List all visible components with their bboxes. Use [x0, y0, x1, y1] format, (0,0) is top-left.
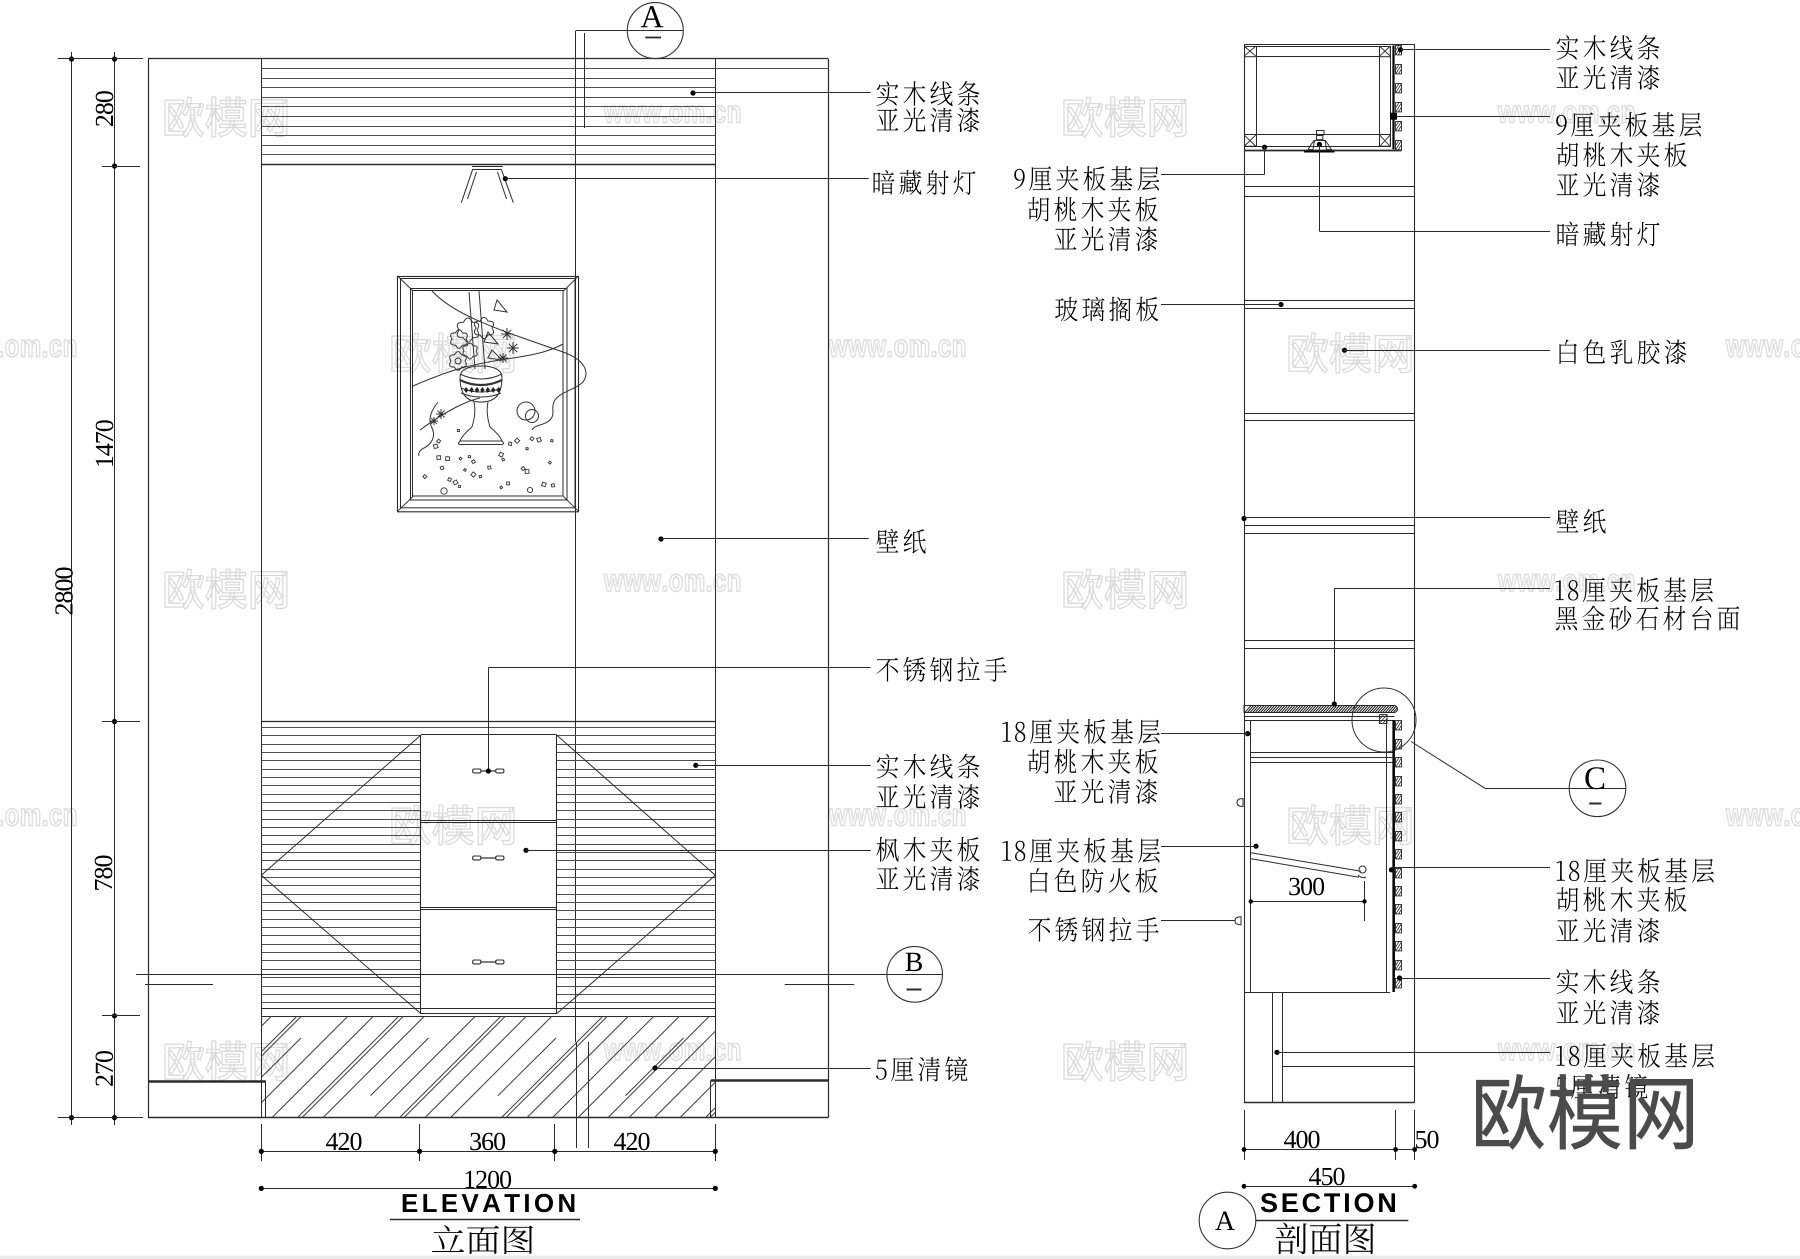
section bubble A (bottom): [1199, 1192, 1256, 1249]
base cabinet (section): [1244, 720, 1395, 992]
stone counter top (hatched): [1244, 705, 1408, 714]
counter nose detail in circle C: [1380, 715, 1388, 724]
label: 暗藏射灯 (elev): [874, 170, 976, 195]
big watermark logo 欧模网: [1476, 1074, 1693, 1150]
mirror band hatch: [170, 1016, 812, 1118]
X-corner bottom-left: [1245, 135, 1257, 147]
dim line 420/360/420: [259, 1133, 718, 1154]
leader: handle (elev): [486, 668, 871, 774]
leader to C bubble: [1411, 742, 1626, 789]
wood moulding strip (top): [1392, 46, 1394, 150]
leader: concealed downlight (section): [1317, 142, 1550, 232]
open flap door: [1251, 853, 1366, 878]
left column inner edge: [261, 59, 263, 1118]
leader: clear mirror (elev): [652, 1065, 870, 1070]
label: 18厘夹板基层/黑金砂石材台面: [1556, 577, 1713, 602]
label: 壁纸 (elev): [877, 529, 926, 554]
section bubble A (top): [576, 3, 684, 59]
dim line 1200: [259, 1171, 718, 1191]
right skirting: [711, 1081, 829, 1118]
picture frame: [398, 276, 579, 512]
drawer handle 3: [473, 960, 481, 964]
vase artwork inside frame: [413, 291, 586, 456]
title ELEVATION: [390, 1194, 580, 1254]
title SECTION: [1256, 1193, 1409, 1254]
label: 18厘夹板基层/5厘清镜: [1557, 1043, 1714, 1068]
base kick: [1273, 992, 1415, 1103]
dim line 280/1470/780/270 vertical: [58, 52, 143, 1125]
cabinet knob upper: [1237, 799, 1243, 807]
diamond diagonals left: [261, 735, 421, 1014]
right column inner edge: [715, 59, 717, 1118]
level line B: [136, 974, 943, 976]
section column outline: [1244, 44, 1415, 1103]
label: 18厘夹板基层/白色防火板: [1003, 838, 1160, 863]
drawer handle 1: [473, 769, 481, 773]
section cut line A: [576, 31, 589, 1148]
dim line 450: [1242, 1168, 1418, 1189]
level line second segments: [145, 984, 854, 986]
label: 白色乳胶漆: [1560, 339, 1687, 364]
concealed downlight (section): [1304, 131, 1335, 152]
leader: white latex paint: [1342, 348, 1550, 353]
dim text 2800: [55, 568, 73, 615]
glass shelf: [1244, 301, 1415, 309]
X-corner top-left: [1245, 47, 1257, 57]
label: 实木线条/亚光清漆 (section right lower): [1557, 969, 1660, 994]
label: 枫木夹板/亚光清漆 (elev): [876, 837, 979, 862]
leader: concealed spotlight (elev): [503, 176, 869, 181]
top wood slat band: [261, 69, 828, 165]
dim text 270: [96, 1051, 114, 1086]
moulding sections (top strip): [1396, 46, 1402, 150]
label: 18厘夹板基层/胡桃木夹板/亚光清漆 (section left): [1003, 719, 1160, 744]
label: 5厘清镜 (elev): [876, 1057, 968, 1082]
leader: 18mm plywood walnut (section right): [1389, 867, 1550, 872]
shelf lines y413: [1244, 414, 1415, 421]
leader: 18mm plywood mirror (section right bottom): [1274, 1050, 1550, 1055]
label: 暗藏射灯 (section): [1558, 222, 1660, 247]
detail bubble C: [1569, 760, 1626, 817]
elevation bottom extension lines: [262, 1124, 716, 1161]
section bottom extension lines: [1245, 1110, 1415, 1160]
shelf lines y186: [1244, 187, 1415, 197]
label: 实木线条/亚光清漆 (elev top): [877, 81, 980, 106]
label: 实木线条/亚光清漆 (section top right): [1557, 35, 1660, 60]
leader: solid wood moulding (section right lower): [1397, 975, 1550, 980]
label: 18厘夹板基层/胡桃木夹板/亚光清漆 (section right lower): [1557, 858, 1714, 883]
elevation wall outline: [148, 59, 829, 1118]
leader: wallpaper (elev): [658, 536, 868, 541]
dim 300: [1249, 878, 1367, 921]
level bubble B: [887, 947, 943, 1003]
drawer unit: [421, 735, 557, 1014]
label: 9厘夹板基层/胡桃木夹板/亚光清漆 (section right): [1556, 112, 1701, 137]
watermark layer: [0, 97, 1800, 1081]
X-corner top-right: [1380, 47, 1391, 57]
label: 不锈钢拉手 (section): [1029, 917, 1159, 942]
section top cabinet box: [1244, 46, 1402, 151]
bottom page strip: [0, 1256, 1800, 1259]
dim text 1470: [96, 420, 114, 466]
label: 玻璃搁板: [1055, 297, 1158, 322]
leader: 9mm plywood (section left): [1161, 145, 1267, 175]
leader: stone counter: [1332, 589, 1550, 707]
dim line 400/50: [1242, 1131, 1439, 1152]
label: 壁纸 (section): [1557, 509, 1606, 534]
cabinet knob lower: [1235, 917, 1241, 925]
shelf lines y640: [1244, 641, 1415, 649]
leader: glass shelf: [1161, 302, 1284, 307]
leader: wallpaper (section): [1241, 516, 1550, 521]
leader: 18mm plywood (section left upper): [1161, 731, 1250, 736]
dim text 280: [96, 91, 114, 126]
label: 不锈钢拉手 (elev): [877, 657, 1007, 682]
drawer handle 2: [473, 856, 481, 860]
concealed spotlight (elevation): [461, 167, 513, 203]
leader: solid wood moulding (section top right): [1398, 47, 1550, 52]
leader: stainless handle (section): [1161, 920, 1235, 922]
X-corner bottom-right: [1380, 135, 1391, 147]
dim text 780: [95, 856, 113, 890]
moulding sections (lower strip): [1396, 721, 1402, 989]
left skirting: [148, 1081, 265, 1117]
label: 9厘夹板基层/胡桃木夹板/亚光清漆 (section left): [1014, 166, 1159, 191]
leader: solid wood moulding lower (elev): [693, 763, 871, 768]
wood moulding strip (lower): [1392, 720, 1394, 992]
leader: solid wood moulding (elev): [690, 90, 870, 95]
leader: 9mm plywood (section right): [1390, 113, 1550, 120]
label: 实木线条/亚光清漆 (elev lower): [877, 754, 980, 779]
lower slat band: [261, 722, 715, 1009]
shelf lines y525: [1244, 526, 1415, 534]
leader: 18mm plywood white fireproof (section left): [1161, 844, 1259, 849]
confetti below vase: [423, 429, 555, 494]
detail circle C: [1352, 688, 1416, 752]
counter underlayers: [1244, 717, 1395, 721]
dim line 2800 vertical: [69, 52, 74, 1125]
leader: maple plywood (elev): [523, 848, 870, 853]
diamond diagonals right: [557, 735, 716, 1014]
